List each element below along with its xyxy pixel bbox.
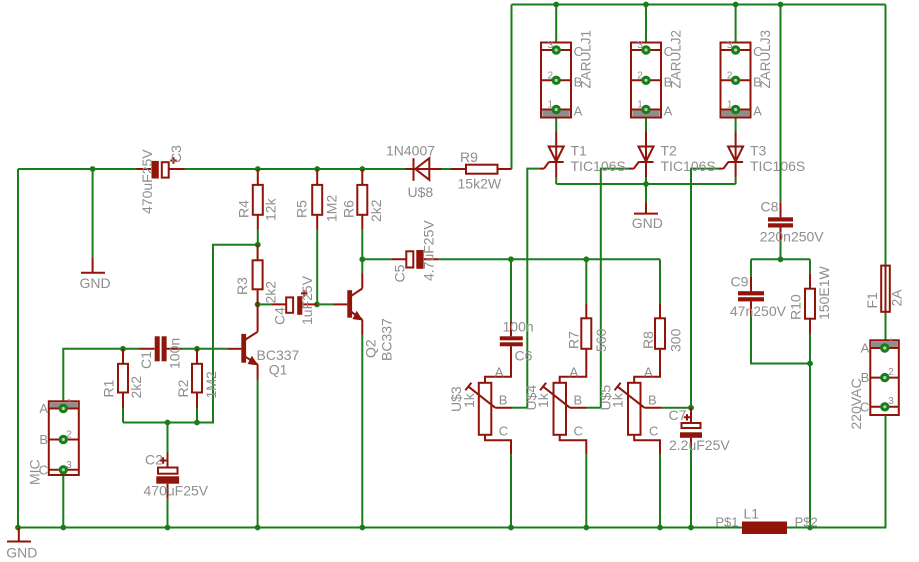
wire R9 to top rail riser [511,5,513,170]
wire snubber top rail [751,258,810,260]
svg-text:C: C [574,44,583,59]
wire drop to R7 [585,259,587,303]
svg-text:P$1: P$1 [715,515,738,530]
node R1R2 C2 junction [165,420,171,426]
svg-text:1k: 1k [610,392,626,408]
svg-text:R6: R6 [341,200,357,218]
wire Q1 emitter to ground rail [257,380,259,528]
resistor R10 [809,274,811,334]
wire V+ rail mid segment [170,168,406,170]
svg-text:R8: R8 [640,331,656,349]
wire T1 gate vertical [527,169,539,408]
wire drop to ZARULJ2 [645,5,647,51]
wire Q2 emitter to ground rail [361,335,363,528]
svg-text:2: 2 [888,367,894,378]
connector ZARULJ2 [631,43,661,118]
svg-text:1: 1 [888,338,894,349]
wire drop to C8 [780,5,782,203]
svg-text:1: 1 [637,100,643,111]
wire feedback node to R1 bottom rail [123,245,258,423]
svg-text:3: 3 [66,460,72,471]
svg-text:C8: C8 [761,199,779,215]
svg-text:2k2: 2k2 [128,376,144,399]
node snubber C8 junction [778,256,784,262]
svg-text:A: A [574,104,583,119]
capacitor C7 pins [690,408,692,446]
resistor R9 [451,168,512,170]
svg-text:T1: T1 [571,143,588,159]
svg-text:2.2uF25V: 2.2uF25V [669,437,730,453]
node C4 R5 junction [314,302,320,308]
node ground rail C7 [688,525,694,531]
node ground rail U$3 [508,525,514,531]
wire T3 gate vertical [691,169,719,408]
transistor Q1 [241,334,246,363]
svg-text:B: B [861,370,870,385]
resistor R1 [122,349,124,408]
svg-text:C: C [753,44,762,59]
svg-text:470uF25V: 470uF25V [144,483,209,499]
svg-text:GND: GND [80,275,111,291]
svg-text:C: C [39,462,48,477]
capacitor C1 [140,348,182,350]
svg-text:A: A [644,364,653,379]
potentiometer U$4 [560,362,587,383]
svg-text:R2: R2 [175,379,191,397]
svg-text:C: C [664,44,673,59]
svg-text:Q1: Q1 [269,362,288,378]
wire R1 bottom stub [122,408,124,423]
wire GND2 drop [645,184,647,203]
node ground rail R10 [807,525,813,531]
node cathode bus GND2 [643,181,649,187]
node Q2 collector junction [359,256,365,262]
wire right riser to fuse [885,5,887,266]
svg-text:A: A [570,364,579,379]
svg-text:C9: C9 [731,274,749,290]
node ground rail Q1e [255,525,261,531]
capacitor C4 pins [271,303,317,305]
diode U$8 [413,158,415,181]
node R4 R3 junction [255,242,261,248]
capacitor C4 [286,297,293,312]
wire R2 bottom stub [196,408,198,423]
svg-text:T3: T3 [750,143,767,159]
svg-text:T2: T2 [661,143,678,159]
svg-text:150E1W: 150E1W [816,266,832,320]
wire Q2 collector to C5 [362,258,391,260]
svg-text:C: C [574,424,583,439]
wire ZARULJ2 pin1 to T2 anode [645,110,647,132]
capacitor C7 [682,423,701,428]
node V+ R5 junction [314,166,320,172]
svg-text:560: 560 [593,328,609,352]
svg-text:R5: R5 [294,200,310,218]
node V+ GND1 junction [90,166,96,172]
svg-text:B: B [574,392,583,407]
wire T2 gate vertical [601,169,629,408]
svg-text:R9: R9 [460,149,478,165]
svg-text:C4: C4 [272,307,288,325]
wire R10 top stub [809,259,811,273]
node R2 bottom junction [194,420,200,426]
capacitor C7 plus [684,414,690,420]
wire C9 top corner [750,259,752,276]
wire R4 bottom to node [257,230,259,245]
capacitor C9 pins [750,276,752,316]
svg-text:C3: C3 [168,145,184,163]
svg-text:F1: F1 [864,292,880,309]
svg-text:B: B [664,75,673,90]
svg-text:1M2: 1M2 [324,195,340,222]
svg-text:A: A [495,364,504,379]
wire fuse to 220VAC pad A [885,312,887,348]
svg-text:Q2: Q2 [363,339,379,358]
svg-text:R4: R4 [236,200,252,218]
capacitor C6 pins [510,321,512,361]
capacitor C3 [152,161,159,179]
svg-text:B: B [648,392,657,407]
node top rail ZARULJ2 [643,2,649,8]
svg-text:1: 1 [547,100,553,111]
svg-text:BC337: BC337 [379,318,395,361]
wire Q2 collector [361,259,363,273]
node ground rail C2 [165,525,171,531]
connector 220VAC pads [880,343,889,352]
wire C9 bottom to snubber bottom rail [751,316,810,363]
svg-text:4.7uF25V: 4.7uF25V [421,220,437,281]
svg-text:R10: R10 [788,294,804,320]
capacitor C8 [768,217,793,221]
wire C1 to Q1 base [182,348,228,350]
resistor R4 [257,169,259,230]
resistor R6 [361,169,363,230]
svg-text:B: B [753,75,762,90]
svg-text:B: B [574,75,583,90]
fuse F1 [881,266,890,312]
svg-text:47n250V: 47n250V [730,303,787,319]
potentiometer U$5 [634,362,660,383]
capacitor C3 plus [170,157,176,163]
svg-text:C1: C1 [138,351,154,369]
node snubber bottom junction [807,361,813,367]
svg-text:1k: 1k [535,392,551,408]
svg-text:1uF25V: 1uF25V [299,275,315,325]
wire MIC C to ground rail [62,470,64,528]
node V+ R4 junction [255,166,261,172]
svg-text:B: B [39,432,48,447]
wire U$4 C to ground rail [585,454,587,527]
svg-text:A: A [753,104,762,119]
connector ZARULJ1 pads [552,45,561,54]
wire U$3 wiper to T1 gate [512,407,527,409]
svg-text:C: C [860,399,869,414]
resistor R5 [316,169,318,230]
connector MIC pads [59,404,68,413]
node ground rail U$5 [657,525,663,531]
wire R10 node to ground rail [809,364,811,528]
wire U$5 C to ground rail [659,454,661,527]
wire drop to R8 [659,259,661,303]
svg-text:2: 2 [547,70,553,81]
svg-text:A: A [39,401,48,416]
capacitor C8 pins [780,202,782,242]
svg-text:15k2W: 15k2W [458,176,502,192]
svg-text:3: 3 [727,40,733,51]
wire T1 cathode stub [555,177,557,184]
capacitor C5 pins [391,258,439,260]
svg-text:3: 3 [637,40,643,51]
node top rail C8 [778,2,784,8]
svg-text:GND: GND [6,545,37,561]
svg-text:470uF25V: 470uF25V [139,149,155,214]
wire R5 bottom to Q2 base node [316,230,318,305]
wire bottom rail right of L1 and right riser [787,407,886,528]
resistor R7 [585,303,587,361]
svg-text:2k2: 2k2 [368,199,384,222]
svg-text:TIC106S: TIC106S [571,158,626,174]
thyristor T1 [555,132,557,147]
svg-text:C: C [499,424,508,439]
wire T2 cathode stub [645,177,647,184]
wire U$5 wiper to T3 gate [661,407,691,409]
wire top lamp rail [512,4,886,6]
wire drop to ZARULJ3 [735,5,737,51]
svg-text:2: 2 [637,70,643,81]
connector ZARULJ2 pads [641,45,650,54]
wire R10 bottom stub [809,334,811,364]
svg-text:U$8: U$8 [408,184,434,200]
svg-text:C: C [649,424,658,439]
wire drop to ZARULJ1 [555,5,557,51]
node U$5 wiper C7 junction [688,405,694,411]
svg-text:TIC106S: TIC106S [750,158,805,174]
node ground rail Q2e [359,525,365,531]
gnd GND2 [645,203,647,214]
wire C5 output row [439,258,660,260]
svg-text:R1: R1 [101,379,117,397]
gnd GND1 [92,258,94,272]
wire diode to R9 [442,168,467,170]
wire MIC A to base net [63,349,139,409]
wire C2 bottom [167,499,169,528]
wire U$3 C to ground rail [510,454,512,527]
svg-text:R3: R3 [234,277,250,295]
inductor L1 [742,522,787,535]
svg-text:1: 1 [727,100,733,111]
svg-text:2A: 2A [889,289,905,307]
svg-text:12k: 12k [263,197,279,221]
capacitor C2 [167,453,169,499]
resistor R3 [257,245,259,305]
resistor R8 [659,303,661,361]
node R7 junction [583,256,589,262]
wire T3 cathode stub [735,177,737,184]
connector ZARULJ3 pads [731,45,740,54]
capacitor C2 plus [160,457,167,464]
svg-text:220n250V: 220n250V [760,229,825,245]
wire Q1 collector node to C4 [258,303,272,305]
node ground rail MIC [60,525,66,531]
svg-text:100n: 100n [503,319,534,335]
svg-text:2: 2 [66,430,72,441]
svg-text:1N4007: 1N4007 [386,143,435,159]
connector ZARULJ3 [721,43,751,118]
svg-text:TIC106S: TIC106S [661,158,716,174]
capacitor C6 [500,336,523,340]
node base R2 junction [194,346,200,352]
connector MIC [49,401,79,475]
wire U$4 wiper to T2 gate [587,407,601,409]
resistor R2 [196,349,198,408]
capacitor C3 pins [137,168,185,170]
wire V+ rail left segment [18,168,152,170]
node top rail ZARULJ3 [733,2,739,8]
svg-text:3: 3 [547,40,553,51]
wire R6 bottom to Q2 collector node [361,230,363,259]
transistor Q2 [347,290,352,318]
capacitor C4 plus [301,290,307,296]
wire C2 top [167,423,169,453]
svg-text:1M2: 1M2 [203,371,219,398]
node top rail ZARULJ1 [553,2,559,8]
svg-text:100n: 100n [167,338,183,369]
wire cathode bus [556,183,735,185]
svg-text:P$2: P$2 [795,515,818,530]
wire GND1 drop [92,169,94,258]
svg-text:A: A [664,104,673,119]
potentiometer U$3 [485,362,511,383]
wire ZARULJ3 pin1 to T3 anode [735,110,737,132]
svg-text:300: 300 [668,328,684,352]
wire left vertical and bottom ground rail [18,169,742,528]
svg-text:C5: C5 [392,264,408,282]
svg-text:GND: GND [632,215,663,231]
svg-text:R7: R7 [566,331,582,349]
svg-text:B: B [499,392,508,407]
wire drop to C6 [510,259,512,321]
connector 220VAC [870,340,899,415]
wire 220VAC pad C to ground rail [885,407,887,528]
wire C4 to Q2 base [317,303,334,305]
thyristor T3 [735,132,737,147]
svg-text:1k: 1k [461,392,477,408]
svg-text:3: 3 [888,396,894,407]
node Q1 collector junction [255,302,261,308]
gnd GND3 [18,528,20,542]
svg-text:A: A [861,341,870,356]
node base R1 junction [120,346,126,352]
thyristor T2 [645,132,647,147]
wire C8 bottom to snubber rail [780,242,782,259]
node C6 junction [508,256,514,262]
connector ZARULJ1 [541,43,571,118]
node ground rail U$4 [583,525,589,531]
node V+ R6 junction [359,166,365,172]
capacitor C5 [406,251,413,267]
wire ZARULJ1 pin1 to T1 anode [555,110,557,132]
svg-text:1: 1 [66,398,72,409]
wire C7 bottom to ground rail [690,446,692,528]
svg-text:C6: C6 [515,348,533,364]
svg-text:L1: L1 [744,506,760,522]
svg-text:C2: C2 [145,452,163,468]
node ground rail GND3 [15,525,21,531]
capacitor C9 [738,291,764,295]
svg-text:C7: C7 [669,407,687,423]
svg-text:2: 2 [727,70,733,81]
svg-text:2k2: 2k2 [263,281,279,304]
